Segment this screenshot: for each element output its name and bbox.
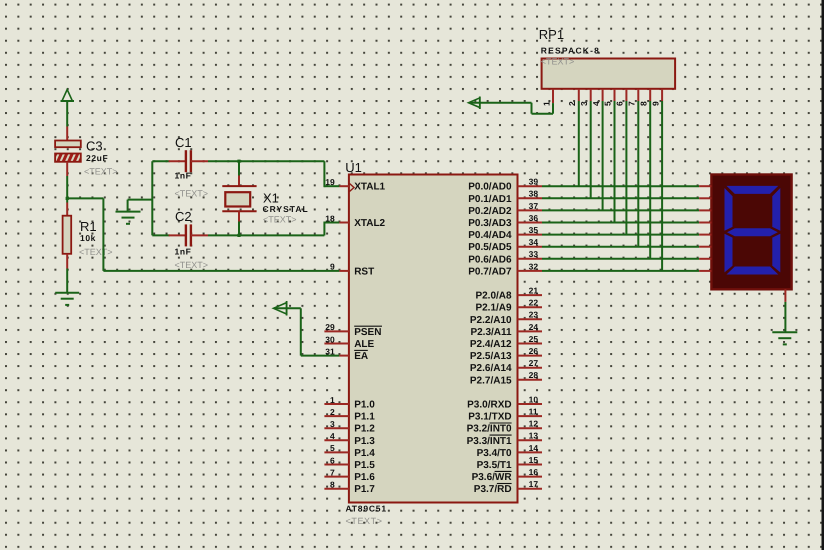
svg-text:P3.3/INT1: P3.3/INT1 (467, 436, 512, 447)
svg-text:1nF: 1nF (175, 247, 192, 257)
pin 1 (P1.0) stub (324, 403, 349, 405)
svg-text:P2.3/A11: P2.3/A11 (470, 327, 512, 338)
wire: X1 bottom stub (238, 222, 240, 236)
svg-text:<TEXT>: <TEXT> (79, 247, 113, 257)
svg-text:U1: U1 (345, 160, 362, 175)
pin 29 (PSEN) stub (324, 330, 349, 332)
svg-text:4: 4 (591, 101, 601, 106)
svg-text:P3.2/INT0: P3.2/INT0 (467, 424, 512, 435)
pin 23 (P2.2/A10) stub (518, 318, 543, 320)
pin: X1 top pin (238, 176, 240, 187)
svg-text:8: 8 (638, 101, 648, 106)
pin: RP1 pin 3 stub (590, 89, 592, 101)
svg-text:C1: C1 (175, 135, 192, 150)
svg-text:P0.7/AD7: P0.7/AD7 (468, 266, 512, 277)
pin 30 (ALE) stub (324, 343, 349, 345)
7-segment display body (711, 175, 791, 290)
resistor R1 (63, 216, 72, 254)
wire: P0.5 to display (542, 246, 699, 248)
svg-text:P0.3/AD3: P0.3/AD3 (468, 218, 512, 229)
display segment g (727, 228, 778, 236)
svg-text:28: 28 (529, 370, 539, 380)
wire: top wire right segment (208, 160, 324, 162)
svg-text:7: 7 (330, 467, 335, 477)
pin: R1 bottom pin (66, 254, 68, 269)
wire: P0.7 to display (542, 270, 699, 272)
svg-text:12: 12 (529, 419, 539, 429)
wire: RP1 pin 2 down to P0.0 net (578, 101, 580, 186)
pin 9 (RST) stub (339, 270, 349, 272)
pin 34 (P0.5/AD5) stub (518, 246, 543, 248)
pin: RP1 pin 8 stub (649, 89, 651, 101)
svg-text:<TEXT>: <TEXT> (346, 516, 383, 526)
wire: RP1 pin 3 down to P0.1 net (590, 101, 592, 198)
svg-text:10k: 10k (80, 233, 96, 243)
pin 6 (P1.5) stub (324, 464, 349, 466)
wire: bottom wire right segment (208, 234, 324, 236)
svg-text:P3.0/RXD: P3.0/RXD (467, 400, 511, 411)
pin: display pin 8 (699, 270, 711, 272)
pin 28 (P2.7/A15) stub (518, 379, 543, 381)
pin 11 (P3.1/TXD) stub (518, 415, 543, 417)
svg-text:15: 15 (529, 455, 539, 465)
svg-text:P2.5/A13: P2.5/A13 (470, 351, 512, 362)
wire: node A to RST corner (horizontal) (67, 197, 103, 199)
svg-text:4: 4 (330, 431, 335, 441)
wire: P0.2 to display (542, 209, 699, 211)
wire: R1 to ground (66, 269, 68, 293)
svg-text:30: 30 (325, 334, 335, 344)
svg-text:3: 3 (579, 101, 589, 106)
capacitor C2 plates (186, 224, 191, 246)
pin 38 (P0.1/AD1) stub (518, 197, 543, 199)
svg-text:2: 2 (330, 407, 335, 417)
pin 4 (P1.3) stub (324, 439, 349, 441)
svg-text:P1.7: P1.7 (354, 484, 375, 495)
pin: display pin 5 (699, 234, 711, 236)
pin 17 (P3.7/RD) stub (518, 488, 543, 490)
ground (display common) (772, 332, 797, 344)
wire: X1 top stub (238, 161, 240, 176)
junction: X1 top (237, 160, 240, 163)
pin: display common pin (784, 289, 786, 302)
pin: display pin 7 (699, 258, 711, 260)
svg-text:CRYSTAL: CRYSTAL (263, 204, 309, 214)
pin: C3 bottom pin (66, 162, 68, 176)
wire: EA arrow to EA pin (274, 308, 339, 355)
svg-text:32: 32 (529, 261, 539, 271)
svg-text:1nF: 1nF (175, 171, 192, 181)
wire: RP1 pin 8 down to P0.6 net (649, 101, 651, 259)
svg-text:35: 35 (529, 225, 539, 235)
pin 7 (P1.6) stub (324, 476, 349, 478)
svg-text:ALE: ALE (354, 339, 374, 350)
svg-text:5: 5 (603, 101, 613, 106)
svg-text:7: 7 (627, 101, 637, 106)
pin 5 (P1.4) stub (324, 451, 349, 453)
pin: C3 top pin (66, 127, 68, 142)
node A junction (66, 197, 69, 200)
pin name EA (354, 350, 368, 362)
wire: P0.1 to display (542, 197, 699, 199)
svg-text:14: 14 (529, 443, 539, 453)
svg-text:P1.6: P1.6 (354, 472, 375, 483)
svg-text:33: 33 (529, 249, 539, 259)
pin 13 (P3.3/INT1) stub (518, 439, 543, 441)
wire: P0.4 to display (542, 234, 699, 236)
pin: RP1 pin 1 stub (552, 89, 554, 103)
pin: C2 left pin (169, 234, 186, 236)
pin: RP1 pin 7 stub (637, 89, 639, 101)
svg-text:22: 22 (529, 298, 539, 308)
svg-text:P3.6/WR: P3.6/WR (472, 472, 513, 483)
pin 21 (P2.0/A8) stub (518, 294, 543, 296)
pin 10 (P3.0/RXD) stub (518, 403, 543, 405)
svg-text:P2.7/A15: P2.7/A15 (470, 375, 512, 386)
svg-text:31: 31 (325, 346, 335, 356)
pin 12 (P3.2/INT0) stub (518, 427, 543, 429)
wire: RP1 pin 9 down to P0.7 net (661, 101, 663, 271)
display segment b (772, 188, 780, 231)
pin: R1 top pin (66, 203, 68, 217)
svg-text:29: 29 (325, 322, 335, 332)
svg-text:P3.4/T0: P3.4/T0 (477, 448, 512, 459)
pin: display pin 4 (699, 222, 711, 224)
svg-text:XTAL2: XTAL2 (354, 218, 385, 229)
display segment f (725, 188, 733, 231)
pin 37 (P0.2/AD2) stub (518, 209, 543, 211)
wire: C3 to node A (66, 176, 68, 203)
svg-text:P1.1: P1.1 (354, 412, 375, 423)
display segment d (727, 267, 779, 275)
svg-text:<TEXT>: <TEXT> (175, 189, 209, 199)
power terminal arrow (top left) (61, 90, 75, 102)
svg-text:23: 23 (529, 310, 539, 320)
output terminal arrow (RP1 common) (469, 97, 480, 110)
pin 39 (P0.0/AD0) stub (518, 185, 543, 187)
wire: RP1 pin 7 down to P0.5 net (637, 101, 639, 247)
svg-text:P0.5/AD5: P0.5/AD5 (468, 242, 512, 253)
input terminal arrow (EA) (273, 301, 286, 316)
pin: C1 left pin (169, 160, 186, 162)
svg-text:37: 37 (529, 201, 539, 211)
wire: display common to ground (784, 302, 786, 332)
wire: C1-C2 left vertical (151, 161, 153, 235)
pin name P3.2/INT0 (467, 423, 512, 435)
wire: P0.6 to display (542, 258, 699, 260)
pin 19 (XTAL1) stub (339, 185, 349, 187)
svg-text:EA: EA (354, 351, 368, 362)
svg-text:AT89C51: AT89C51 (346, 503, 387, 513)
svg-text:26: 26 (529, 346, 539, 356)
ground (oscillator) (116, 212, 141, 224)
resistor pack RP1 body (542, 59, 676, 89)
wire: ground tap (128, 200, 153, 212)
svg-text:P0.4/AD4: P0.4/AD4 (468, 230, 512, 241)
capacitor C3 (electrolytic) (55, 141, 81, 162)
svg-text:P2.4/A12: P2.4/A12 (470, 339, 512, 350)
svg-text:13: 13 (529, 431, 539, 441)
wire: to RST pin (horizontal) (103, 270, 339, 272)
pin 36 (P0.3/AD3) stub (518, 222, 543, 224)
pin 25 (P2.4/A12) stub (518, 343, 543, 345)
wire: top wire left segment (152, 160, 169, 162)
svg-text:P2.2/A10: P2.2/A10 (470, 315, 512, 326)
wire: RP1 pin1 to arrow (470, 103, 554, 114)
svg-text:P1.4: P1.4 (354, 448, 375, 459)
svg-text:P1.2: P1.2 (354, 424, 375, 435)
pin: C2 right pin (191, 234, 208, 236)
svg-text:P0.0/AD0: P0.0/AD0 (468, 182, 512, 193)
svg-text:24: 24 (529, 322, 539, 332)
svg-text:<TEXT>: <TEXT> (175, 260, 209, 270)
svg-text:P1.5: P1.5 (354, 460, 375, 471)
svg-text:P0.2/AD2: P0.2/AD2 (468, 206, 512, 217)
svg-text:C3: C3 (86, 139, 103, 154)
pin 24 (P2.3/A11) stub (518, 330, 543, 332)
wire: P0.0 to display (542, 185, 699, 187)
svg-text:RP1: RP1 (539, 27, 564, 42)
capacitor C1 plates (186, 150, 191, 172)
display segment c (772, 234, 780, 273)
wire: to XTAL2 (324, 222, 339, 236)
pin 15 (P3.5/T1) stub (518, 464, 543, 466)
wire: bottom wire left segment (152, 234, 169, 236)
svg-text:RESPACK-8: RESPACK-8 (541, 46, 600, 56)
pin 2 (P1.1) stub (324, 415, 349, 417)
wire: P0.3 to display (542, 222, 699, 224)
pin: RP1 pin 4 stub (602, 89, 604, 101)
svg-text:22uF: 22uF (86, 153, 108, 163)
svg-text:P0.6/AD6: P0.6/AD6 (468, 254, 512, 265)
svg-text:17: 17 (529, 479, 539, 489)
svg-text:18: 18 (325, 213, 335, 223)
wire: RP1 pin 5 down to P0.3 net (614, 101, 616, 223)
clock marker XTAL1 (350, 184, 355, 192)
pin 14 (P3.4/T0) stub (518, 451, 543, 453)
svg-text:P2.1/A9: P2.1/A9 (475, 303, 512, 314)
pin name P3.3/INT1 (467, 435, 512, 447)
svg-text:16: 16 (529, 467, 539, 477)
svg-text:9: 9 (650, 101, 660, 106)
svg-text:P3.5/T1: P3.5/T1 (477, 460, 512, 471)
svg-text:19: 19 (325, 177, 335, 187)
display segment a (727, 186, 779, 194)
pin 33 (P0.6/AD6) stub (518, 258, 543, 260)
svg-text:1: 1 (330, 395, 335, 405)
svg-text:P1.3: P1.3 (354, 436, 375, 447)
svg-text:P2.6/A14: P2.6/A14 (470, 363, 512, 374)
svg-text:PSEN: PSEN (354, 327, 381, 338)
pin 32 (P0.7/AD7) stub (518, 270, 543, 272)
pin: C1 right pin (191, 160, 208, 162)
svg-text:RST: RST (354, 266, 374, 277)
svg-text:27: 27 (529, 358, 539, 368)
pin: RP1 pin 6 stub (625, 89, 627, 101)
svg-text:39: 39 (529, 177, 539, 187)
svg-text:34: 34 (529, 237, 539, 247)
svg-text:R1: R1 (80, 219, 97, 234)
svg-text:25: 25 (529, 334, 539, 344)
svg-text:<TEXT>: <TEXT> (84, 167, 118, 177)
svg-text:38: 38 (529, 189, 539, 199)
svg-text:P3.1/TXD: P3.1/TXD (468, 412, 511, 423)
svg-text:5: 5 (330, 443, 335, 453)
pin: display pin 6 (699, 246, 711, 248)
crystal X1 (222, 186, 256, 211)
svg-text:3: 3 (330, 419, 335, 429)
svg-text:P3.7/RD: P3.7/RD (474, 484, 512, 495)
pin: X1 bottom pin (238, 211, 240, 222)
pin 16 (P3.6/WR) stub (518, 476, 543, 478)
svg-text:XTAL1: XTAL1 (354, 182, 385, 193)
pin: display pin 1 (699, 185, 711, 187)
svg-text:36: 36 (529, 213, 539, 223)
svg-text:P2.0/A8: P2.0/A8 (475, 291, 512, 302)
pin 3 (P1.2) stub (324, 427, 349, 429)
op IC body U1 (349, 175, 518, 503)
svg-text:C2: C2 (175, 209, 192, 224)
svg-text:P0.1/AD1: P0.1/AD1 (468, 194, 512, 205)
svg-text:11: 11 (529, 407, 538, 417)
wire: RST corner (vertical) (102, 198, 104, 271)
wire: RP1 pin 6 down to P0.4 net (625, 101, 627, 235)
pin 18 (XTAL2) stub (339, 222, 349, 224)
pin 22 (P2.1/A9) stub (518, 306, 543, 308)
svg-text:<TEXT>: <TEXT> (541, 57, 575, 67)
pin 31 (EA) stub (339, 355, 349, 357)
pin name PSEN (354, 326, 382, 338)
svg-text:2: 2 (567, 101, 577, 106)
svg-text:21: 21 (529, 286, 539, 296)
pin name P3.7/RD (474, 484, 512, 496)
svg-text:6: 6 (615, 101, 625, 106)
pin 27 (P2.6/A14) stub (518, 367, 543, 369)
pin: RP1 pin 2 stub (578, 89, 580, 101)
pin: display pin 3 (699, 209, 711, 211)
pin 35 (P0.4/AD4) stub (518, 234, 543, 236)
svg-text:6: 6 (330, 455, 335, 465)
svg-text:8: 8 (330, 480, 335, 490)
pin 8 (P1.7) stub (324, 488, 349, 490)
svg-text:10: 10 (529, 394, 539, 404)
pin name P3.6/WR (472, 471, 513, 483)
junction: X1 bottom (237, 234, 240, 237)
pin: display pin 2 (699, 197, 711, 199)
svg-text:P1.0: P1.0 (354, 400, 375, 411)
svg-text:1: 1 (542, 101, 552, 106)
display segment e (725, 234, 733, 273)
svg-text:<TEXT>: <TEXT> (263, 215, 297, 225)
svg-text:9: 9 (330, 262, 335, 272)
pin: RP1 pin 9 stub (661, 89, 663, 101)
wire: to XTAL1 (324, 161, 339, 187)
wire: RP1 pin 4 down to P0.2 net (602, 101, 604, 210)
wire: power arrow to C3 (66, 101, 68, 127)
ground (below R1) (55, 293, 79, 305)
pin 26 (P2.5/A13) stub (518, 355, 543, 357)
pin: RP1 pin 5 stub (614, 89, 616, 101)
